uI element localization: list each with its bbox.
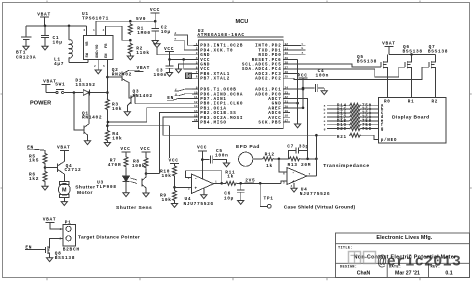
- svg-text:10k: 10k: [162, 173, 172, 179]
- svg-text:R1: R1: [408, 100, 415, 105]
- svg-text:FB: FB: [105, 43, 109, 48]
- svg-text:NJU77552G: NJU77552G: [184, 201, 214, 207]
- svg-text:a: a: [324, 104, 326, 107]
- svg-text:e: e: [324, 120, 326, 123]
- svg-text:28: 28: [285, 62, 289, 65]
- svg-text:SW1: SW1: [55, 81, 65, 87]
- svg-text:24: 24: [285, 87, 289, 90]
- svg-text:2: 2: [196, 48, 198, 51]
- svg-text:VBAT: VBAT: [37, 11, 51, 17]
- svg-text:110k: 110k: [136, 50, 150, 56]
- svg-text:CR123A: CR123A: [16, 55, 36, 61]
- svg-text:1M00: 1M00: [137, 30, 151, 36]
- svg-text:VCC: VCC: [197, 144, 207, 150]
- svg-text:B2BCH: B2BCH: [63, 247, 80, 253]
- svg-text:100n: 100n: [215, 152, 229, 158]
- svg-text:R2: R2: [432, 100, 439, 105]
- svg-text:BSS138: BSS138: [403, 48, 423, 54]
- svg-text:470R: 470R: [108, 162, 122, 168]
- svg-text:6: 6: [84, 29, 86, 32]
- svg-text:4: 4: [103, 29, 105, 32]
- svg-text:PB4.MISO: PB4.MISO: [200, 121, 226, 126]
- svg-text:31: 31: [285, 48, 289, 51]
- svg-text:1k: 1k: [266, 163, 273, 169]
- svg-text:6: 6: [196, 66, 198, 69]
- svg-text:5: 5: [283, 181, 285, 184]
- svg-text:Transimpedance: Transimpedance: [323, 163, 369, 169]
- svg-text:2: 2: [94, 65, 96, 68]
- svg-text:4µ7: 4µ7: [54, 61, 64, 67]
- svg-text:10k: 10k: [162, 197, 172, 203]
- svg-text:a: a: [302, 52, 304, 55]
- svg-text:1k5: 1k5: [29, 158, 39, 164]
- svg-text:VB: VB: [86, 41, 90, 46]
- svg-text:@eric2013: @eric2013: [378, 253, 462, 270]
- svg-text:0.1: 0.1: [445, 270, 452, 276]
- svg-text:7: 7: [196, 71, 198, 74]
- svg-text:GND/VO: GND/VO: [95, 44, 100, 58]
- svg-text:20: 20: [285, 105, 289, 108]
- svg-text:5: 5: [196, 62, 198, 65]
- svg-text:c: c: [302, 42, 304, 45]
- svg-text:Motor: Motor: [77, 190, 93, 196]
- svg-text:Target Distance Pointer: Target Distance Pointer: [78, 235, 140, 241]
- svg-text:VBAT: VBAT: [382, 41, 396, 47]
- svg-text:c: c: [324, 112, 326, 115]
- svg-text:SW: SW: [86, 52, 90, 57]
- svg-text:VCC: VCC: [120, 146, 130, 152]
- svg-text:1k: 1k: [227, 173, 234, 179]
- svg-text:PB7.XTAL2: PB7.XTAL2: [200, 77, 230, 82]
- svg-text:NJU77552G: NJU77552G: [300, 191, 330, 197]
- svg-text:Shutter Sens: Shutter Sens: [116, 205, 152, 211]
- svg-text:1SS352: 1SS352: [75, 82, 95, 88]
- svg-text:C2712: C2712: [65, 167, 82, 173]
- svg-text:16: 16: [194, 119, 198, 122]
- svg-text:11: 11: [194, 96, 198, 99]
- svg-text:EN: EN: [105, 54, 109, 58]
- svg-text:ADC2.PC2: ADC2.PC2: [255, 77, 281, 82]
- svg-text:VBAT: VBAT: [43, 217, 57, 223]
- svg-text:BSS138: BSS138: [55, 255, 75, 261]
- svg-text:13: 13: [194, 105, 198, 108]
- svg-text:7: 7: [309, 173, 311, 176]
- svg-text:VCC: VCC: [150, 7, 160, 13]
- svg-text:DESIGN:: DESIGN:: [340, 265, 357, 269]
- svg-text:ChaN: ChaN: [357, 270, 371, 276]
- svg-text:R13 20M: R13 20M: [288, 162, 312, 168]
- svg-text:+: +: [195, 187, 198, 192]
- svg-text:R0: R0: [384, 100, 391, 105]
- svg-text:R21: R21: [337, 135, 347, 140]
- svg-text:BSS138: BSS138: [357, 58, 377, 64]
- svg-text:g: g: [381, 127, 384, 132]
- svg-text:10k: 10k: [112, 106, 122, 112]
- svg-text:14: 14: [194, 110, 198, 113]
- svg-text:VCC: VCC: [298, 72, 308, 78]
- svg-text:b: b: [302, 46, 304, 50]
- svg-text:1k2: 1k2: [29, 176, 39, 182]
- svg-text:VBAT: VBAT: [137, 65, 151, 71]
- svg-text:M: M: [62, 188, 67, 194]
- svg-text:2V5: 2V5: [245, 178, 255, 184]
- svg-text:TPS61071: TPS61071: [82, 16, 109, 22]
- svg-text:10k: 10k: [112, 135, 122, 141]
- svg-text:MCU: MCU: [236, 19, 249, 25]
- svg-text:R20: R20: [337, 127, 347, 132]
- svg-text:21: 21: [285, 101, 289, 104]
- svg-text:1: 1: [196, 43, 198, 46]
- svg-text:TITLE:: TITLE:: [338, 247, 353, 251]
- svg-text:23: 23: [285, 91, 289, 94]
- svg-text:6: 6: [283, 172, 285, 175]
- svg-text:10µ: 10µ: [161, 29, 171, 35]
- svg-text:32: 32: [285, 43, 289, 46]
- svg-text:VCC: VCC: [140, 146, 150, 152]
- svg-text:750: 750: [362, 127, 372, 132]
- svg-text:17: 17: [285, 119, 289, 122]
- svg-text:RN1402: RN1402: [133, 93, 153, 99]
- svg-text:Display Board: Display Board: [392, 114, 429, 120]
- svg-text:19: 19: [285, 110, 289, 113]
- svg-text:1: 1: [93, 29, 95, 32]
- svg-text:BSS138: BSS138: [428, 48, 448, 54]
- svg-text:VCC: VCC: [169, 158, 179, 164]
- svg-text:TP1: TP1: [264, 196, 274, 202]
- svg-text:VCC: VCC: [164, 46, 174, 52]
- svg-text:1: 1: [60, 228, 62, 231]
- svg-text:10: 10: [194, 91, 198, 94]
- svg-text:26: 26: [285, 71, 289, 74]
- svg-text:100k: 100k: [132, 163, 146, 169]
- svg-text:100n: 100n: [154, 72, 168, 78]
- svg-text:g: g: [324, 128, 326, 131]
- svg-text:RN1402: RN1402: [82, 115, 102, 121]
- svg-text:R12: R12: [265, 152, 275, 158]
- svg-text:Mar 27 '21: Mar 27 '21: [395, 270, 420, 276]
- svg-text:5: 5: [103, 65, 105, 68]
- svg-text:3: 3: [196, 52, 198, 55]
- svg-text:4: 4: [196, 57, 198, 60]
- svg-text:9: 9: [196, 87, 198, 90]
- svg-text:-: -: [195, 177, 198, 182]
- svg-text:10µ: 10µ: [53, 39, 63, 45]
- svg-text:12: 12: [194, 101, 198, 104]
- svg-text:Case Shield (Virtual Ground): Case Shield (Virtual Ground): [284, 205, 356, 211]
- svg-text:TLP908: TLP908: [96, 184, 116, 190]
- svg-text:29: 29: [285, 57, 289, 60]
- svg-text:d: d: [324, 115, 326, 119]
- svg-text:EFD Pad: EFD Pad: [236, 144, 260, 150]
- svg-text:8: 8: [196, 76, 198, 79]
- svg-text:4: 4: [291, 185, 293, 188]
- svg-text:Electronic Lives Mfg.: Electronic Lives Mfg.: [376, 235, 432, 241]
- svg-text:POWER: POWER: [30, 101, 51, 107]
- svg-text:100n: 100n: [316, 73, 330, 79]
- svg-text:22: 22: [285, 96, 289, 99]
- svg-text:p/NEO: p/NEO: [381, 138, 398, 143]
- svg-text:18: 18: [285, 115, 289, 118]
- svg-text:27: 27: [285, 66, 289, 69]
- svg-text:C7: C7: [287, 144, 294, 150]
- svg-text:-: -: [292, 171, 295, 176]
- svg-text:b: b: [324, 107, 326, 111]
- svg-text:10µ: 10µ: [224, 196, 234, 202]
- svg-text:f: f: [324, 123, 326, 127]
- svg-text:SCK.PB5: SCK.PB5: [258, 121, 281, 126]
- svg-text:Shutter: Shutter: [75, 184, 95, 190]
- svg-text:30: 30: [285, 52, 289, 55]
- svg-text:VBAT: VBAT: [57, 145, 71, 151]
- svg-text:25: 25: [285, 76, 289, 79]
- svg-text:15: 15: [194, 114, 198, 117]
